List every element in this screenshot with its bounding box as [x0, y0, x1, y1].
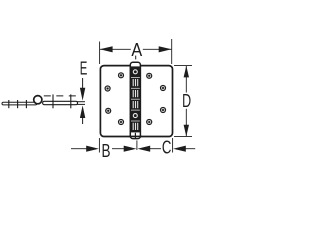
svg-text:B: B: [102, 141, 111, 161]
side view: left thin leaf (edge-on): [2, 102, 37, 105]
dimension A: left arrowhead: [100, 46, 113, 52]
side view: screw ticks on left leaf: [8, 100, 10, 108]
side view: hidden dashed line above right leaf: [44, 95, 80, 97]
screw hole right-leaf top: [146, 73, 152, 79]
dimension B: inner arrow pointing right to centre: [112, 148, 125, 150]
dimension D: extension lines: [174, 65, 192, 67]
dimension A: extension lines: [99, 42, 101, 65]
knuckle 1 ring: [133, 70, 137, 74]
dimension A: right arrowhead: [159, 46, 172, 52]
dimension B: outside tail arrow pointing right: [71, 148, 87, 150]
side view: right leaf capsule: [43, 101, 78, 104]
screw hole left-leaf upper-outer: [105, 85, 111, 91]
knuckle joint lines: [131, 77, 140, 121]
side view: barrel circle: [34, 96, 42, 104]
dimension A: dimension line: [100, 48, 131, 50]
knuckle 6 slits: [133, 123, 138, 130]
dimension E: upper arrow (points down): [82, 78, 84, 89]
svg-text:E: E: [80, 59, 88, 79]
screw hole left-leaf lower-outer: [105, 108, 111, 114]
knuckle 2 slits: [133, 79, 138, 86]
front view: hinge leaf square: [100, 66, 172, 137]
screw hole right-leaf bottom: [146, 119, 152, 125]
svg-text:C: C: [162, 138, 172, 158]
screw hole right-leaf upper-outer: [160, 85, 166, 91]
screw hole left-leaf top: [118, 72, 124, 78]
dimension C: outside tail arrow pointing left: [173, 146, 186, 152]
screw hole left-leaf bottom: [118, 119, 124, 125]
dimension D: dimension line: [185, 66, 187, 93]
dimension E: leaf-edge extension dashes: [77, 101, 86, 103]
bottom finial: [134, 133, 136, 138]
dimension D: bottom arrowhead: [184, 125, 189, 137]
dimension C: inner arrow pointing left to centre: [138, 146, 151, 152]
dimension E: lower arrow (points up): [80, 105, 85, 118]
dimension D: top arrowhead: [184, 66, 189, 78]
knuckle 4 slits: [133, 101, 138, 108]
side view: screw ticks on right leaf: [52, 94, 54, 108]
knuckle / pin barrel strip: [129, 62, 141, 138]
svg-text:D: D: [182, 91, 191, 111]
screw hole right-leaf lower-outer: [160, 107, 166, 113]
dimension B/C: extension lines: [98, 138, 100, 153]
knuckle 3 slits: [133, 90, 138, 97]
centerline tick above knuckle: [135, 56, 137, 60]
knuckle 5 ring: [133, 114, 137, 118]
svg-text:A: A: [131, 39, 142, 60]
